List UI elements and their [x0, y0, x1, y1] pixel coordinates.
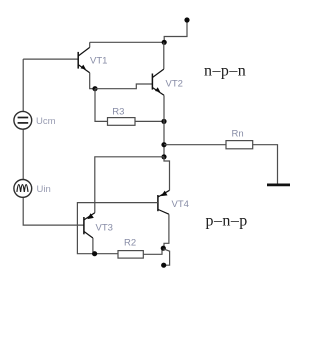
- svg-text:VT3: VT3: [96, 222, 113, 233]
- wire VT4 base: [77, 203, 157, 254]
- wire top terminal stub: [164, 21, 187, 42]
- node Rn junction: [161, 142, 166, 147]
- svg-text:VT2: VT2: [166, 78, 183, 89]
- wire VT1 emitter to VT2 base: [95, 84, 152, 89]
- node VT4 collector junction: [161, 246, 166, 251]
- wire R2 right jog up: [143, 248, 162, 254]
- node R3 junction: [161, 119, 166, 124]
- wire left vertical to Ucm: [22, 59, 24, 112]
- source Uin: [14, 180, 32, 198]
- wire Rn to ground: [253, 145, 278, 184]
- svg-text:R2: R2: [124, 237, 136, 248]
- wire VT3 collector down: [93, 238, 95, 254]
- svg-text:VT4: VT4: [172, 199, 189, 210]
- wire R3 to VT2 emitter line: [135, 120, 164, 122]
- node top rail junction: [162, 40, 167, 45]
- wire VT4 collector down: [164, 214, 169, 248]
- transistor VT3: [84, 213, 95, 238]
- wire S-jog to bottom terminal: [163, 249, 169, 265]
- resistor R2: [118, 251, 143, 259]
- wire VT1 base lead: [23, 58, 77, 60]
- wire VT2 emitter down: [163, 95, 165, 157]
- wire to Rn: [164, 144, 226, 146]
- node mid junction: [161, 154, 166, 159]
- wire mid junction left and down to VT3 emitter: [95, 157, 164, 213]
- svg-text:Rn: Rn: [232, 129, 244, 140]
- transistor VT1: [78, 42, 90, 73]
- wire VT1 emitter down: [90, 73, 95, 89]
- wire mid junction to VT4 emitter: [164, 157, 170, 191]
- source Ucm: [14, 111, 32, 129]
- transistor VT2: [152, 42, 164, 95]
- svg-text:p–n–p: p–n–p: [206, 213, 248, 230]
- svg-text:Uin: Uin: [37, 184, 51, 195]
- wire down to R3: [95, 89, 108, 122]
- svg-text:n–p–n: n–p–n: [204, 62, 246, 79]
- wire Uin to VT3 base: [23, 197, 83, 225]
- resistor Rn: [226, 141, 253, 149]
- wire top rail: [90, 41, 165, 43]
- svg-text:VT1: VT1: [90, 56, 107, 67]
- ground: [267, 183, 290, 186]
- node VT1 emitter junction: [92, 86, 97, 91]
- resistor R3: [108, 118, 136, 126]
- transistor VT4: [158, 190, 170, 214]
- node top terminal: [184, 17, 189, 22]
- wire Ucm to Uin: [22, 129, 24, 180]
- node VT3 collector junction: [92, 251, 97, 256]
- svg-text:Ucm: Ucm: [36, 116, 56, 127]
- svg-text:R3: R3: [112, 106, 124, 117]
- node bottom terminal: [161, 263, 166, 268]
